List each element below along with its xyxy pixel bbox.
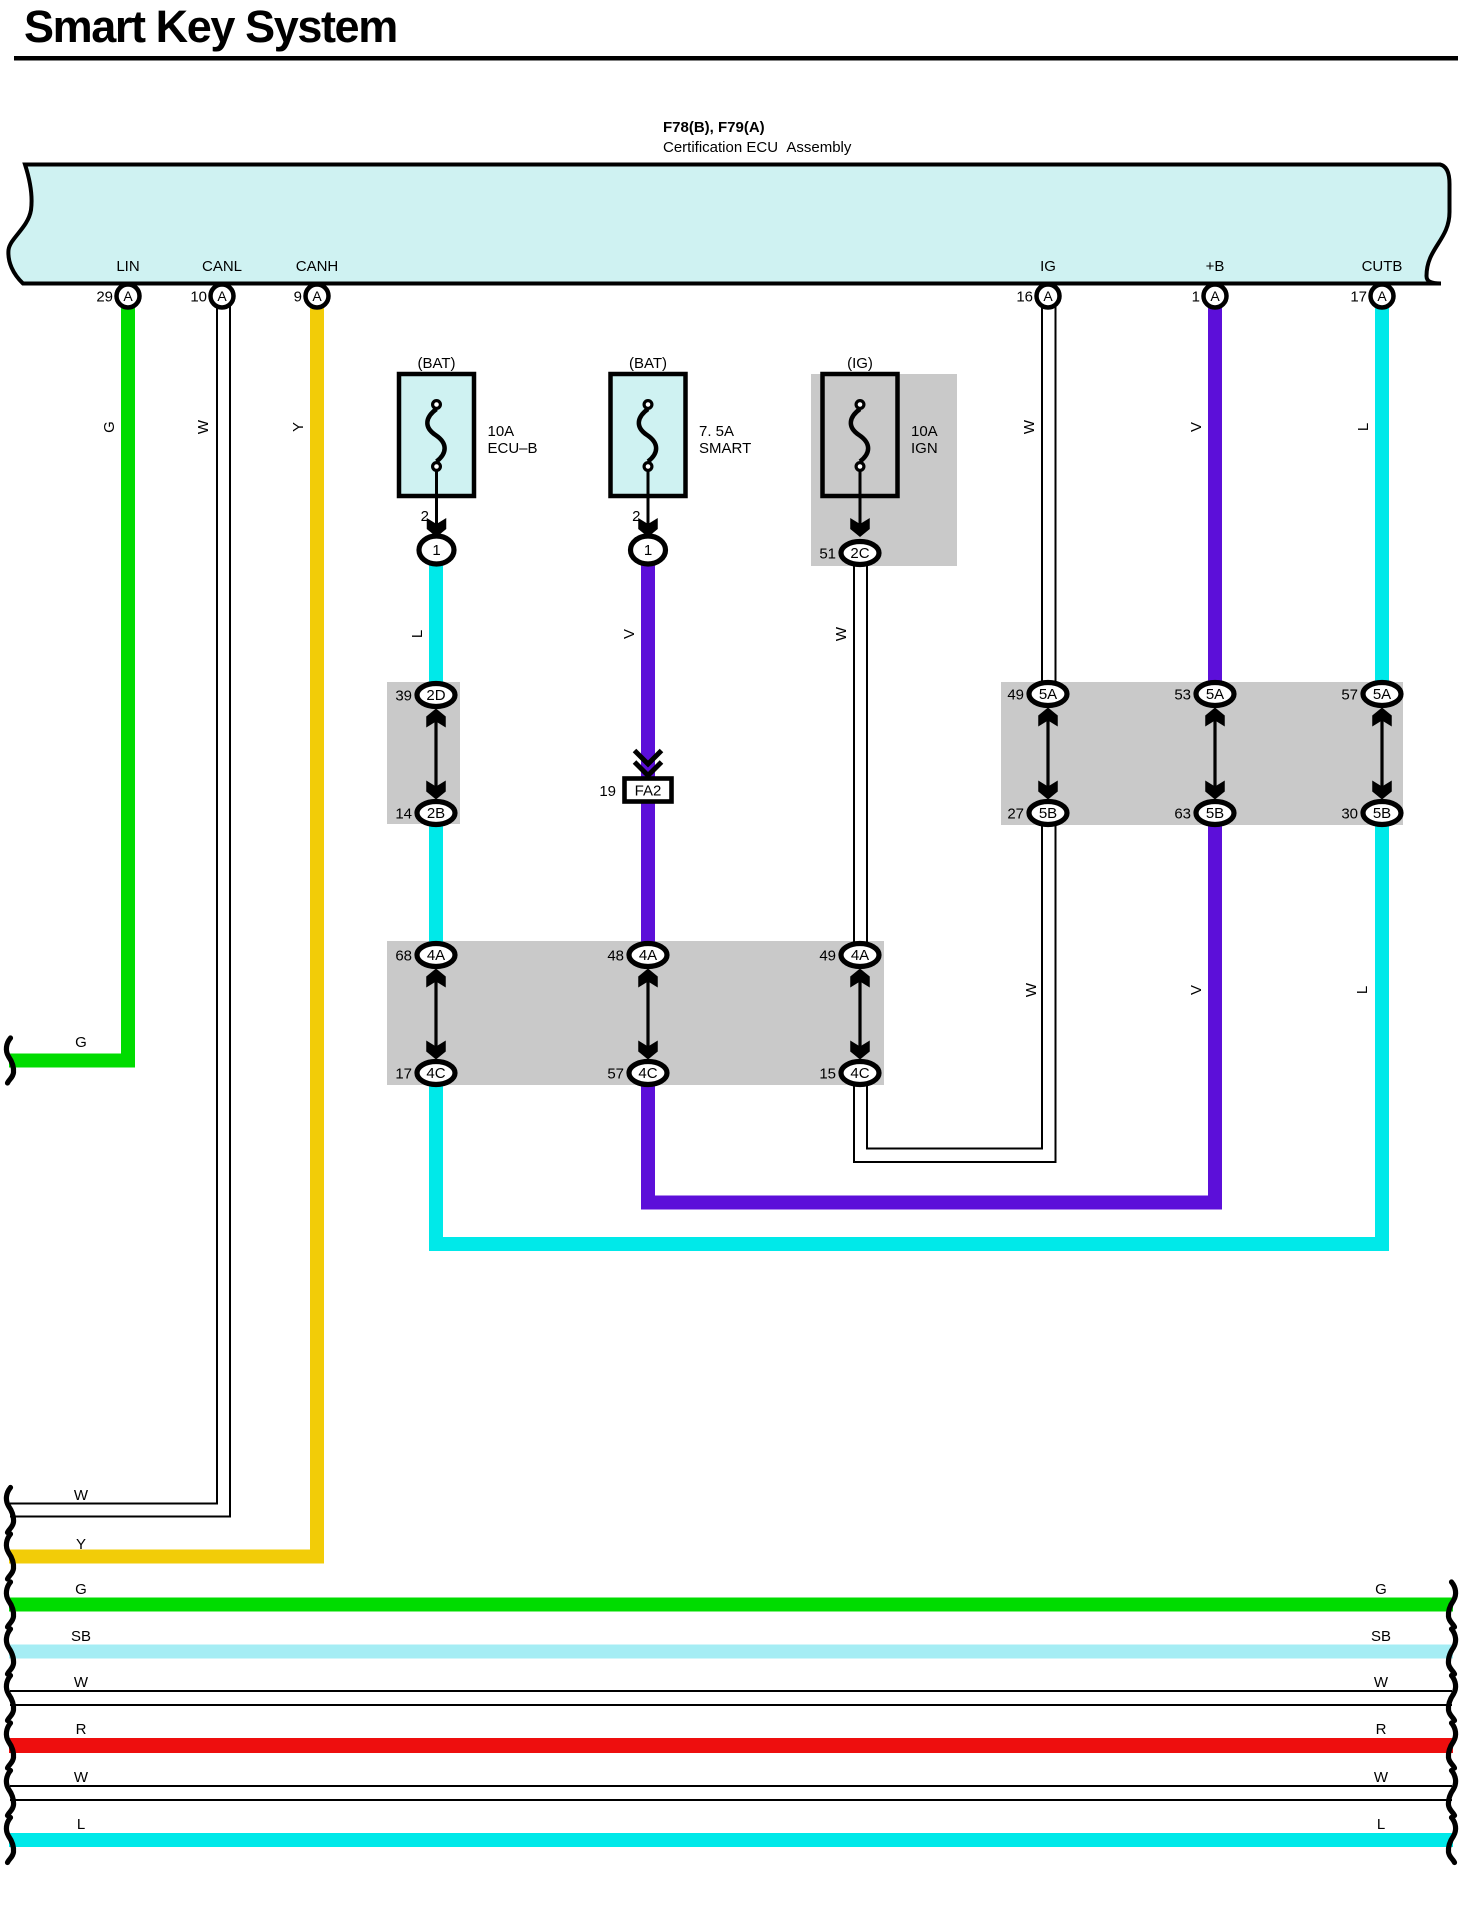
svg-text:68: 68 xyxy=(395,948,412,965)
svg-text:14: 14 xyxy=(395,806,412,823)
svg-text:49: 49 xyxy=(1007,687,1024,704)
svg-text:V: V xyxy=(1188,985,1205,995)
svg-text:G: G xyxy=(75,1581,87,1598)
svg-text:ECU–B: ECU–B xyxy=(488,440,538,457)
svg-text:4C: 4C xyxy=(850,1065,869,1082)
svg-text:W: W xyxy=(1374,1674,1389,1691)
svg-text:+B: +B xyxy=(1206,258,1225,275)
svg-text:R: R xyxy=(1376,1721,1387,1738)
svg-text:A: A xyxy=(312,288,322,304)
svg-text:29: 29 xyxy=(96,289,113,306)
svg-text:W: W xyxy=(74,1769,89,1786)
svg-text:L: L xyxy=(1377,1816,1385,1833)
svg-text:5A: 5A xyxy=(1206,686,1224,703)
svg-text:SB: SB xyxy=(1371,1628,1391,1645)
svg-text:1: 1 xyxy=(1192,289,1200,306)
svg-text:51: 51 xyxy=(819,546,836,563)
svg-text:2D: 2D xyxy=(426,687,445,704)
svg-text:5B: 5B xyxy=(1373,805,1391,822)
svg-text:53: 53 xyxy=(1174,687,1191,704)
svg-text:FA2: FA2 xyxy=(635,783,662,800)
svg-text:A: A xyxy=(217,288,227,304)
svg-text:17: 17 xyxy=(395,1066,412,1083)
svg-text:SB: SB xyxy=(71,1628,91,1645)
svg-text:IGN: IGN xyxy=(911,440,938,457)
svg-text:(IG): (IG) xyxy=(847,355,873,372)
svg-text:F78(B), F79(A): F78(B), F79(A) xyxy=(663,119,765,136)
svg-text:57: 57 xyxy=(607,1066,624,1083)
svg-text:39: 39 xyxy=(395,688,412,705)
svg-text:48: 48 xyxy=(607,948,624,965)
svg-text:1: 1 xyxy=(644,542,652,559)
svg-text:G: G xyxy=(1375,1581,1387,1598)
svg-text:30: 30 xyxy=(1341,806,1358,823)
svg-text:V: V xyxy=(1188,422,1205,432)
svg-text:9: 9 xyxy=(294,289,302,306)
svg-text:16: 16 xyxy=(1016,289,1033,306)
svg-text:LIN: LIN xyxy=(116,258,139,275)
svg-text:W: W xyxy=(1023,982,1040,997)
svg-text:15: 15 xyxy=(819,1066,836,1083)
svg-text:Smart Key System: Smart Key System xyxy=(24,1,397,52)
svg-text:W: W xyxy=(833,626,850,641)
svg-text:Y: Y xyxy=(290,422,307,432)
svg-text:4A: 4A xyxy=(639,947,657,964)
svg-text:10: 10 xyxy=(190,289,207,306)
svg-text:IG: IG xyxy=(1040,258,1056,275)
svg-text:V: V xyxy=(621,629,638,639)
svg-text:5A: 5A xyxy=(1373,686,1391,703)
svg-text:(BAT): (BAT) xyxy=(629,355,667,372)
svg-text:7. 5A: 7. 5A xyxy=(699,423,734,440)
svg-text:4A: 4A xyxy=(851,947,869,964)
svg-text:2C: 2C xyxy=(850,545,869,562)
svg-text:L: L xyxy=(409,630,426,638)
svg-text:5A: 5A xyxy=(1039,686,1057,703)
svg-text:W: W xyxy=(195,419,212,434)
svg-text:5B: 5B xyxy=(1206,805,1224,822)
svg-text:A: A xyxy=(1210,288,1220,304)
svg-text:W: W xyxy=(1374,1769,1389,1786)
svg-text:17: 17 xyxy=(1350,289,1367,306)
svg-text:W: W xyxy=(74,1674,89,1691)
svg-text:SMART: SMART xyxy=(699,440,751,457)
svg-text:Certification ECU Assembly: Certification ECU Assembly xyxy=(663,139,852,156)
svg-text:CANH: CANH xyxy=(296,258,339,275)
svg-text:10A: 10A xyxy=(488,423,515,440)
svg-text:CANL: CANL xyxy=(202,258,242,275)
svg-text:2: 2 xyxy=(421,508,429,525)
svg-text:19: 19 xyxy=(599,783,616,800)
svg-text:2: 2 xyxy=(632,508,640,525)
svg-text:Y: Y xyxy=(76,1536,86,1553)
svg-text:CUTB: CUTB xyxy=(1362,258,1403,275)
svg-text:G: G xyxy=(101,421,118,433)
svg-text:W: W xyxy=(1021,419,1038,434)
svg-text:57: 57 xyxy=(1341,687,1358,704)
svg-text:5B: 5B xyxy=(1039,805,1057,822)
svg-text:10A: 10A xyxy=(911,423,938,440)
svg-text:L: L xyxy=(1355,423,1372,431)
svg-text:L: L xyxy=(77,1816,85,1833)
svg-text:L: L xyxy=(1354,986,1371,994)
svg-text:R: R xyxy=(76,1721,87,1738)
svg-text:A: A xyxy=(1377,288,1387,304)
svg-text:27: 27 xyxy=(1007,806,1024,823)
svg-text:(BAT): (BAT) xyxy=(417,355,455,372)
svg-text:4C: 4C xyxy=(638,1065,657,1082)
svg-text:A: A xyxy=(1043,288,1053,304)
svg-text:W: W xyxy=(74,1487,89,1504)
svg-text:49: 49 xyxy=(819,948,836,965)
svg-text:4A: 4A xyxy=(427,947,445,964)
svg-text:G: G xyxy=(75,1034,87,1051)
svg-text:2B: 2B xyxy=(427,805,445,822)
svg-text:4C: 4C xyxy=(426,1065,445,1082)
svg-text:1: 1 xyxy=(432,542,440,559)
svg-text:63: 63 xyxy=(1174,806,1191,823)
svg-text:A: A xyxy=(123,288,133,304)
